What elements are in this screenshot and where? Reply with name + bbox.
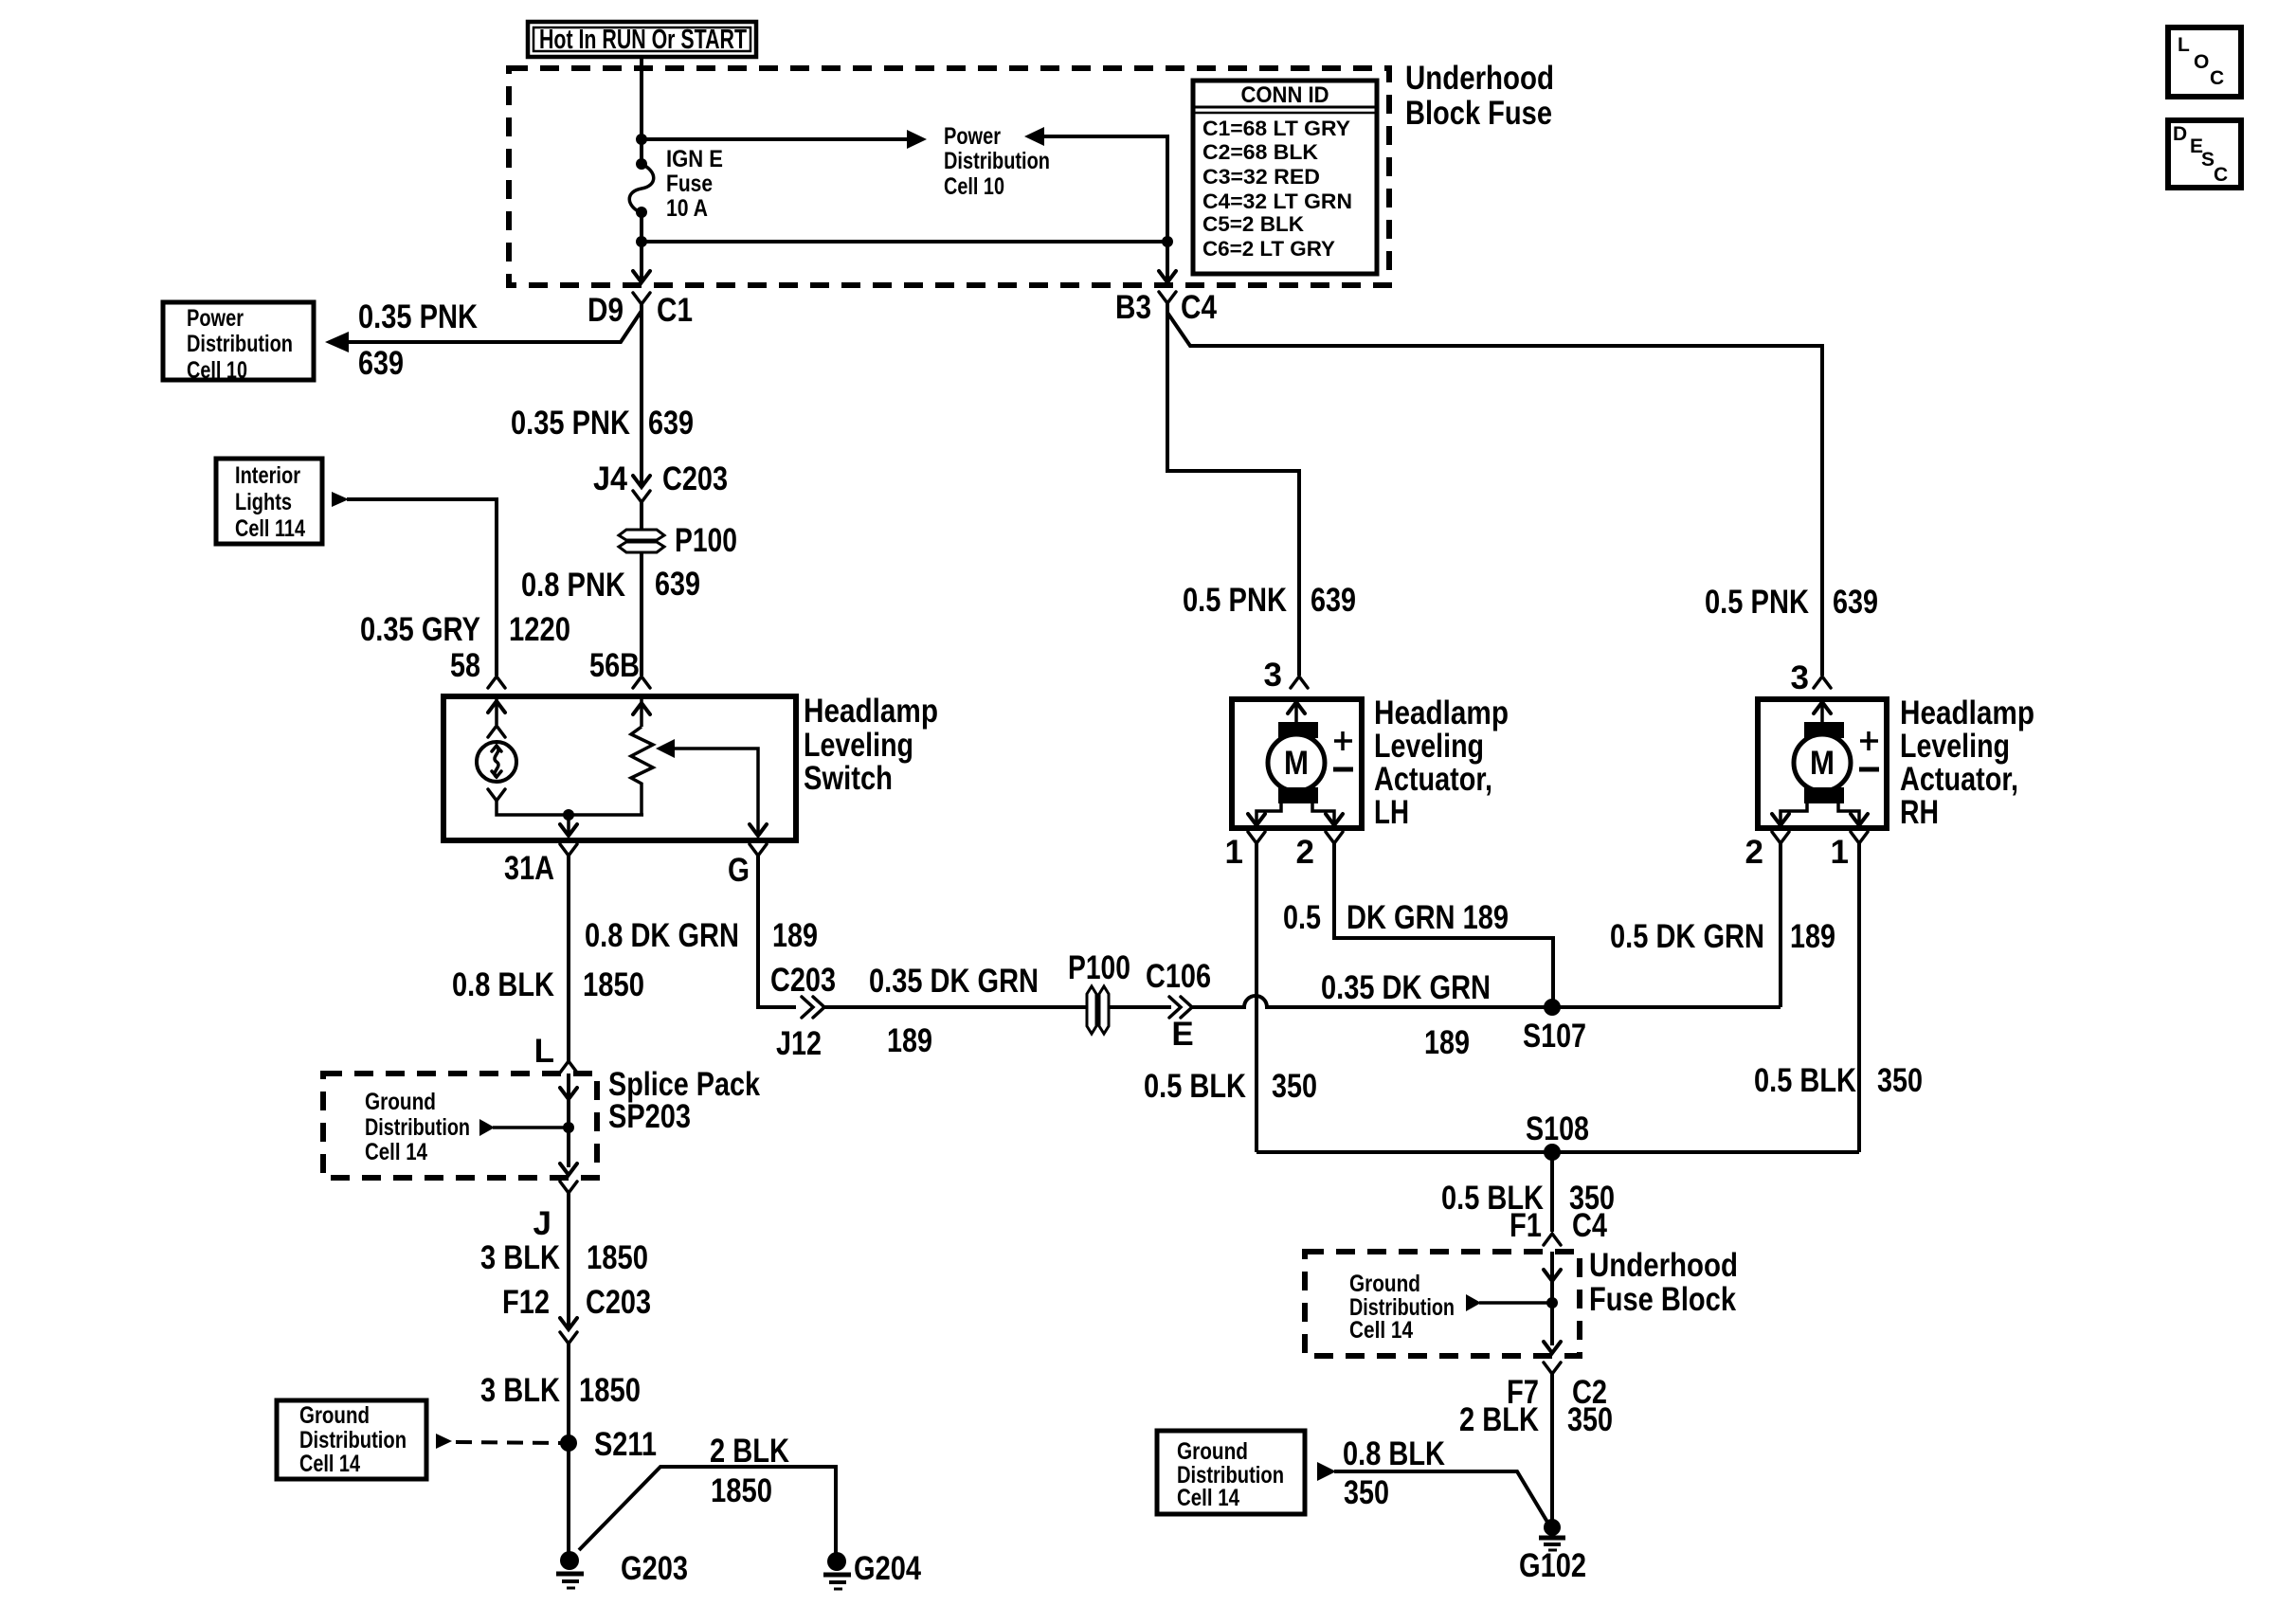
svg-text:Distribution: Distribution xyxy=(299,1427,407,1453)
label Headlamp Leveling Actuator, LH xyxy=(1374,695,1509,831)
svg-text:639: 639 xyxy=(1833,584,1878,621)
svg-text:C4=32 LT GRN: C4=32 LT GRN xyxy=(1202,189,1352,213)
svg-text:O: O xyxy=(2194,51,2209,73)
svg-text:1: 1 xyxy=(1225,834,1243,871)
svg-text:0.5 DK GRN: 0.5 DK GRN xyxy=(1610,918,1764,955)
label 3 BLK 1850 (lower) xyxy=(480,1372,641,1409)
svg-text:2: 2 xyxy=(1296,834,1314,871)
svg-text:189: 189 xyxy=(1790,918,1835,955)
svg-text:3: 3 xyxy=(1791,659,1809,696)
svg-text:1220: 1220 xyxy=(509,611,570,648)
svg-text:C3=32 RED: C3=32 RED xyxy=(1202,165,1320,189)
label 0.5 PNK 639 (RH) xyxy=(1705,584,1878,621)
svg-text:J4: J4 xyxy=(593,460,627,497)
svg-text:Switch: Switch xyxy=(804,760,893,797)
pin G xyxy=(728,844,767,889)
svg-text:S211: S211 xyxy=(594,1426,657,1463)
wire from Power Distribution arrow (left, to B3 branch) xyxy=(1024,127,1167,242)
ground G102 xyxy=(1519,1519,1586,1584)
svg-text:Distribution: Distribution xyxy=(365,1114,470,1141)
svg-text:G203: G203 xyxy=(621,1550,688,1587)
headlamp leveling actuator LH box xyxy=(1232,699,1362,828)
svg-text:639: 639 xyxy=(655,566,700,603)
svg-text:10 A: 10 A xyxy=(666,195,708,222)
underhood fuse block dashed outline xyxy=(509,68,1389,285)
wire LH pin 2 to S107 xyxy=(1334,843,1553,1007)
reference box Ground Distribution Cell 14 (left) xyxy=(277,1400,426,1479)
svg-text:1850: 1850 xyxy=(579,1372,641,1409)
wire G down and right to J12 xyxy=(758,856,796,1007)
svg-text:2: 2 xyxy=(1745,834,1763,871)
label 0.5 BLK 350 (below S108) xyxy=(1441,1180,1615,1217)
switch internal: pin 58 entry arrow xyxy=(488,698,505,737)
svg-text:Cell 14: Cell 14 xyxy=(365,1139,427,1165)
wire P100 to C106 xyxy=(1109,1005,1171,1009)
svg-text:J: J xyxy=(533,1205,551,1242)
wire through splice pack with arrows xyxy=(560,1074,577,1175)
svg-text:Leveling: Leveling xyxy=(1374,728,1484,765)
svg-text:56B: 56B xyxy=(589,647,640,684)
label Headlamp Leveling Actuator, RH xyxy=(1900,695,2034,831)
wire J4 to P100 xyxy=(640,502,643,531)
connector F12 C203 xyxy=(502,1284,651,1344)
svg-text:Cell 114: Cell 114 xyxy=(235,515,305,542)
svg-text:C2=68 BLK: C2=68 BLK xyxy=(1202,140,1318,164)
svg-text:L: L xyxy=(2178,34,2190,56)
svg-text:Leveling: Leveling xyxy=(804,727,913,764)
svg-text:Underhood: Underhood xyxy=(1405,60,1554,97)
wire B3 down-jog to LH pin 3 xyxy=(1167,303,1299,676)
svg-text:Ground: Ground xyxy=(1177,1438,1248,1465)
svg-text:350: 350 xyxy=(1567,1401,1613,1438)
ground G203 xyxy=(556,1550,688,1588)
svg-text:LH: LH xyxy=(1374,794,1409,831)
svg-text:3 BLK: 3 BLK xyxy=(480,1239,560,1276)
svg-text:Distribution: Distribution xyxy=(187,331,293,357)
svg-text:B3: B3 xyxy=(1115,289,1151,326)
pin 58 xyxy=(450,647,505,688)
svg-text:0.8 DK GRN: 0.8 DK GRN xyxy=(585,917,739,954)
svg-text:C4: C4 xyxy=(1572,1207,1607,1244)
svg-text:Cell 10: Cell 10 xyxy=(944,173,1004,200)
svg-text:2 BLK: 2 BLK xyxy=(710,1433,789,1470)
wire from Hot box to fuse xyxy=(640,57,643,164)
wire B3 to actuator branch xyxy=(1167,303,1822,676)
node fuse block ground junction xyxy=(1466,1294,1558,1311)
svg-text:0.5 PNK: 0.5 PNK xyxy=(1183,582,1287,619)
motor M RH xyxy=(1794,699,1879,803)
node B3 drop junction xyxy=(1162,236,1173,247)
pin 56B xyxy=(589,647,650,688)
svg-text:0.8 PNK: 0.8 PNK xyxy=(521,567,625,604)
svg-text:189: 189 xyxy=(887,1022,932,1059)
svg-text:E: E xyxy=(1171,1016,1193,1053)
headlamp leveling actuator RH box xyxy=(1758,699,1887,828)
node S211 xyxy=(560,1426,657,1463)
pin 3 LH xyxy=(1264,657,1308,694)
svg-text:1850: 1850 xyxy=(587,1239,648,1276)
wire S108 bus xyxy=(1257,1150,1859,1154)
svg-text:Actuator,: Actuator, xyxy=(1900,761,2018,798)
svg-text:350: 350 xyxy=(1272,1068,1317,1105)
svg-text:S107: S107 xyxy=(1523,1018,1586,1055)
label 0.8 BLK 350 xyxy=(1343,1435,1445,1511)
wire 0.35 PNK 639 to Power Distribution Cell 10 (left) xyxy=(325,311,642,352)
svg-text:3 BLK: 3 BLK xyxy=(480,1372,560,1409)
connector J4 C203 xyxy=(593,460,728,502)
wire 0.8 BLK 350 to G102 xyxy=(1317,1462,1548,1524)
wire D9 to J4 xyxy=(640,304,643,487)
svg-text:Cell 14: Cell 14 xyxy=(1349,1317,1413,1344)
DESC reference box xyxy=(2168,120,2241,188)
svg-text:M: M xyxy=(1810,745,1835,782)
label 0.5 DK GRN 189 (RH pin 2) xyxy=(1610,918,1835,955)
label Underhood Block Fuse xyxy=(1405,60,1554,132)
motor M LH xyxy=(1268,699,1353,803)
wire through fuse block with entry arrow xyxy=(1544,1252,1561,1353)
label 2 BLK 350 (G102 feed) xyxy=(1459,1401,1613,1438)
node fuse output junction xyxy=(636,236,647,247)
svg-text:0.35 DK GRN: 0.35 DK GRN xyxy=(869,963,1039,1000)
label 0.35 DK GRN 189 (left of P100) xyxy=(869,963,1039,1059)
svg-text:Fuse Block: Fuse Block xyxy=(1589,1281,1736,1318)
wire J12 to P100 xyxy=(823,1005,1087,1009)
fuse IGN E 10 A xyxy=(629,146,723,222)
wire C106 to S107 with hop over pin1 wire xyxy=(1190,996,1781,1007)
svg-text:P100: P100 xyxy=(1068,949,1130,986)
svg-text:0.8 BLK: 0.8 BLK xyxy=(452,966,554,1003)
svg-text:0.35 PNK: 0.35 PNK xyxy=(358,298,478,335)
label 0.8 PNK 639 xyxy=(521,566,700,604)
svg-text:IGN E: IGN E xyxy=(666,146,723,172)
connector J12 C203 xyxy=(770,962,836,1062)
switch internal: pin 56B entry arrow xyxy=(633,698,650,727)
pin 1 RH xyxy=(1831,832,1868,871)
wire B3 drop to border xyxy=(1166,242,1169,280)
connector D9 C1 xyxy=(588,271,693,329)
node junction above fuse xyxy=(636,134,647,145)
headlamp leveling switch box xyxy=(443,696,796,840)
label Power Distribution Cell 10 (in fuse block) xyxy=(944,123,1050,200)
svg-text:0.8 BLK: 0.8 BLK xyxy=(1343,1435,1445,1472)
node switch internal junction xyxy=(563,809,574,821)
wire F12 to S211 xyxy=(567,1344,570,1557)
connector J (splice pack bottom) xyxy=(533,1182,577,1242)
switch internal: lamp lower fork xyxy=(488,789,505,801)
ground G204 xyxy=(823,1550,921,1589)
reference box Power Distribution Cell 10 xyxy=(163,302,314,384)
svg-text:0.5 BLK: 0.5 BLK xyxy=(1754,1062,1856,1099)
pin 3 RH xyxy=(1791,659,1831,696)
svg-text:F1: F1 xyxy=(1510,1207,1542,1244)
label Ground Distribution Cell 14 (in fuse block) xyxy=(1349,1271,1455,1344)
svg-text:350: 350 xyxy=(1344,1474,1389,1511)
svg-text:1: 1 xyxy=(1831,834,1849,871)
label Ground Distribution Cell 14 (in splice pack) xyxy=(365,1089,470,1165)
svg-text:J12: J12 xyxy=(776,1025,822,1062)
wire P100 to pin 56B xyxy=(640,552,643,676)
pin 2 LH xyxy=(1296,832,1343,871)
svg-text:C4: C4 xyxy=(1181,289,1217,326)
svg-text:L: L xyxy=(534,1033,554,1070)
node S108 xyxy=(1526,1110,1589,1161)
connector L (splice pack top) xyxy=(534,1033,577,1073)
svg-text:639: 639 xyxy=(1311,582,1356,619)
svg-text:S: S xyxy=(2201,149,2215,171)
svg-text:DK GRN 189: DK GRN 189 xyxy=(1347,899,1509,936)
svg-text:Headlamp: Headlamp xyxy=(1900,695,2034,731)
grommet P100 xyxy=(619,522,737,559)
power feed box Hot In RUN Or START xyxy=(528,22,756,57)
label 3 BLK 1850 (upper) xyxy=(480,1239,648,1276)
svg-text:Interior: Interior xyxy=(235,462,300,489)
label 2 BLK 1850 (G204) xyxy=(710,1433,789,1509)
reference box Interior Lights Cell 114 xyxy=(216,459,322,544)
svg-text:350: 350 xyxy=(1877,1062,1923,1099)
connector C106 E xyxy=(1146,958,1211,1053)
motor LH leads to pins xyxy=(1248,803,1343,825)
svg-text:C106: C106 xyxy=(1146,958,1211,995)
svg-text:0.5: 0.5 xyxy=(1283,899,1321,936)
potentiometer resistor xyxy=(631,727,653,815)
connector F7 C2 xyxy=(1507,1362,1607,1411)
svg-text:Headlamp: Headlamp xyxy=(1374,695,1509,731)
wire to Power Distribution arrow (right) xyxy=(642,130,927,149)
label 0.5 DK GRN 189 (LH pin 2) xyxy=(1283,899,1509,936)
wire LH pin 1 down to S108 xyxy=(1255,843,1258,1152)
label 0.35 PNK 639 (left branch) xyxy=(358,298,478,382)
node splice pack junction xyxy=(479,1119,574,1136)
svg-text:C203: C203 xyxy=(662,460,728,497)
svg-text:Block Fuse: Block Fuse xyxy=(1405,95,1552,132)
svg-text:Distribution: Distribution xyxy=(944,148,1050,174)
svg-text:Fuse: Fuse xyxy=(666,171,713,197)
svg-text:Cell 10: Cell 10 xyxy=(187,357,247,384)
svg-text:S108: S108 xyxy=(1526,1110,1589,1147)
label Headlamp Leveling Switch xyxy=(804,693,938,797)
svg-text:Underhood: Underhood xyxy=(1589,1247,1738,1284)
svg-text:G204: G204 xyxy=(854,1550,921,1587)
svg-text:1850: 1850 xyxy=(711,1472,772,1509)
svg-text:31A: 31A xyxy=(504,850,554,887)
label 0.8 BLK 1850 xyxy=(452,966,644,1003)
connector F1 C4 xyxy=(1510,1207,1607,1245)
label Underhood Fuse Block xyxy=(1589,1247,1738,1318)
connector B3 C4 xyxy=(1115,271,1217,326)
svg-text:Ground: Ground xyxy=(1349,1271,1420,1297)
svg-text:Headlamp: Headlamp xyxy=(804,693,938,730)
wire fuse output to B3 drop xyxy=(642,240,1167,244)
node S107 xyxy=(1523,999,1586,1055)
svg-text:0.35 GRY: 0.35 GRY xyxy=(360,611,480,648)
CONN ID table xyxy=(1193,81,1377,274)
svg-text:639: 639 xyxy=(648,405,694,442)
svg-text:D: D xyxy=(2173,123,2187,145)
svg-text:0.35 DK GRN: 0.35 DK GRN xyxy=(1321,969,1491,1006)
svg-text:189: 189 xyxy=(1424,1024,1470,1061)
label 0.8 DK GRN 189 xyxy=(585,917,818,954)
wire RH pin 1 down to S108 xyxy=(1857,843,1861,1152)
svg-text:Lights: Lights xyxy=(235,489,292,515)
label 0.5 PNK 639 (LH) xyxy=(1183,582,1356,619)
motor RH leads to pins xyxy=(1772,803,1868,825)
svg-text:Power: Power xyxy=(187,305,244,332)
label 0.35 GRY 1220 xyxy=(360,611,570,648)
lamp (illumination) symbol xyxy=(477,742,516,782)
LOC reference box xyxy=(2168,27,2241,97)
pin 31A xyxy=(504,844,577,887)
dashed wire ground distribution to S211 xyxy=(436,1434,564,1449)
svg-text:CONN ID: CONN ID xyxy=(1241,82,1329,108)
svg-text:C1=68 LT GRY: C1=68 LT GRY xyxy=(1202,117,1350,140)
svg-text:D9: D9 xyxy=(588,292,624,329)
svg-text:0.5 PNK: 0.5 PNK xyxy=(1705,584,1809,621)
wire S108 to F1 xyxy=(1550,1152,1554,1232)
svg-text:M: M xyxy=(1284,745,1309,782)
svg-text:Ground: Ground xyxy=(299,1402,370,1429)
svg-text:F12: F12 xyxy=(502,1284,550,1321)
pin 1 LH xyxy=(1225,832,1265,871)
svg-text:0.5 BLK: 0.5 BLK xyxy=(1144,1068,1246,1105)
label 0.35 DK GRN 189 (right of hop) xyxy=(1321,969,1491,1061)
svg-text:Hot In RUN Or START: Hot In RUN Or START xyxy=(539,25,747,55)
pin 2 RH xyxy=(1745,832,1789,871)
wire RH pin 2 up from S107 run xyxy=(1779,843,1782,1007)
wire fuse output down xyxy=(640,212,643,280)
wire Interior Lights to pin 58 xyxy=(332,492,497,676)
svg-text:1850: 1850 xyxy=(583,966,644,1003)
wire F7 to G102 xyxy=(1550,1374,1554,1524)
wire 2 BLK 1850 to G204 xyxy=(579,1467,836,1554)
svg-text:C203: C203 xyxy=(770,962,836,999)
svg-text:Cell 14: Cell 14 xyxy=(1177,1485,1239,1511)
switch internal wire lamp to bottom bus xyxy=(497,801,643,815)
label 0.35 PNK 639 (vertical) xyxy=(511,405,694,442)
svg-text:RH: RH xyxy=(1900,794,1939,831)
svg-text:Power: Power xyxy=(944,123,1001,150)
svg-text:G: G xyxy=(728,852,750,889)
reference box Ground Distribution Cell 14 (right) xyxy=(1157,1431,1305,1514)
svg-text:C: C xyxy=(2214,164,2228,186)
wire J to F12 xyxy=(567,1193,570,1327)
svg-text:C: C xyxy=(2210,67,2224,89)
label 0.5 BLK 350 (LH pin 1) xyxy=(1144,1068,1317,1105)
svg-text:189: 189 xyxy=(772,917,818,954)
svg-text:58: 58 xyxy=(450,647,480,684)
wire 31A down to splice pack xyxy=(567,856,570,1061)
svg-text:3: 3 xyxy=(1264,657,1282,694)
svg-text:G102: G102 xyxy=(1519,1547,1586,1584)
svg-text:Actuator,: Actuator, xyxy=(1374,761,1492,798)
splice pack dashed box xyxy=(323,1074,597,1178)
svg-text:SP203: SP203 xyxy=(608,1098,691,1135)
svg-text:Ground: Ground xyxy=(365,1089,436,1115)
svg-text:639: 639 xyxy=(358,345,404,382)
svg-text:P100: P100 xyxy=(675,522,737,559)
svg-text:2 BLK: 2 BLK xyxy=(1459,1401,1539,1438)
label Splice Pack SP203 xyxy=(608,1066,760,1135)
label 0.5 BLK 350 (RH pin 1) xyxy=(1754,1062,1923,1099)
potentiometer wiper arrow xyxy=(656,739,767,836)
switch internal: 31A exit arrow xyxy=(560,815,577,836)
svg-text:0.35 PNK: 0.35 PNK xyxy=(511,405,630,442)
grommet P100 (firewall) xyxy=(1068,949,1130,1034)
svg-text:C203: C203 xyxy=(586,1284,651,1321)
svg-text:C5=2 BLK: C5=2 BLK xyxy=(1202,212,1304,236)
svg-text:C1: C1 xyxy=(657,292,693,329)
underhood fuse block dashed box (ground) xyxy=(1305,1252,1580,1356)
svg-text:Cell 14: Cell 14 xyxy=(299,1451,360,1477)
svg-text:Leveling: Leveling xyxy=(1900,728,2010,765)
svg-text:C6=2 LT GRY: C6=2 LT GRY xyxy=(1202,237,1335,261)
